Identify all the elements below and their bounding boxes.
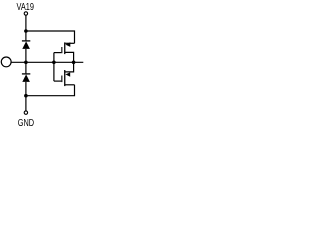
Q1 bulk arrow — [65, 42, 70, 47]
wire D2 anode to node C — [25, 82, 27, 111]
node mid-rail junction dot — [72, 61, 76, 65]
gate bus wire — [53, 53, 55, 82]
Q1 drain stub — [65, 42, 74, 44]
node A junction dot — [24, 29, 28, 33]
wire VA19 terminal to node A — [25, 15, 27, 41]
terminal GND — [24, 111, 27, 114]
wire D1 anode to node B — [25, 49, 27, 74]
transistor Q2 (bottom clamp MOSFET) — [54, 62, 75, 86]
wire input pin line — [11, 61, 83, 63]
node B junction dot — [24, 61, 28, 65]
Q1 gate plate — [61, 47, 63, 53]
port input pin circle — [1, 57, 11, 67]
svg-text:GND: GND — [18, 117, 34, 128]
wire node A to top-right corner — [26, 31, 75, 43]
Q2 channel plate — [64, 70, 66, 86]
Q2 gate plate — [61, 76, 63, 83]
node C junction dot — [24, 94, 28, 98]
terminal VA19 — [24, 12, 27, 15]
svg-text:VA19: VA19 — [16, 1, 34, 12]
Q1 channel plate — [64, 42, 66, 54]
Q2 source stub — [65, 84, 75, 86]
wire node C to bottom-right corner — [26, 85, 75, 96]
node gate-bus junction dot — [52, 61, 56, 65]
diode D1 (anode at input node, cathode to VA19) — [22, 41, 30, 49]
transistor Q1 (top clamp MOSFET) — [54, 42, 75, 62]
Q2 bulk arrow — [65, 72, 70, 76]
diode D2 (anode at GND, cathode to input node) — [22, 74, 30, 82]
Q2 drain stub — [64, 62, 73, 72]
wire GND terminal stub — [25, 110, 27, 112]
Q2 gate lead — [54, 80, 61, 82]
Q1 source stub — [65, 52, 74, 62]
Q1 gate lead — [54, 52, 61, 54]
